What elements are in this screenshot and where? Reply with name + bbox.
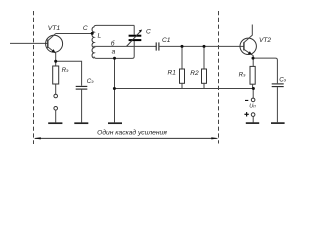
svg-text:Один каскад усиления: Один каскад усиления: [97, 128, 167, 136]
svg-text:Rэ: Rэ: [239, 72, 246, 79]
svg-text:VT2: VT2: [259, 37, 271, 44]
svg-text:Rэ: Rэ: [62, 67, 69, 74]
svg-text:а: а: [112, 49, 116, 56]
svg-text:VT1: VT1: [48, 25, 61, 32]
svg-text:C: C: [83, 25, 88, 32]
svg-text:C1: C1: [162, 37, 171, 44]
svg-text:R2: R2: [190, 70, 199, 77]
svg-text:Cэ: Cэ: [87, 78, 94, 85]
svg-text:б: б: [111, 40, 115, 48]
svg-text:Cэ: Cэ: [279, 77, 286, 84]
svg-text:C: C: [146, 29, 151, 36]
svg-text:R1: R1: [168, 70, 177, 77]
svg-text:L: L: [98, 33, 102, 40]
